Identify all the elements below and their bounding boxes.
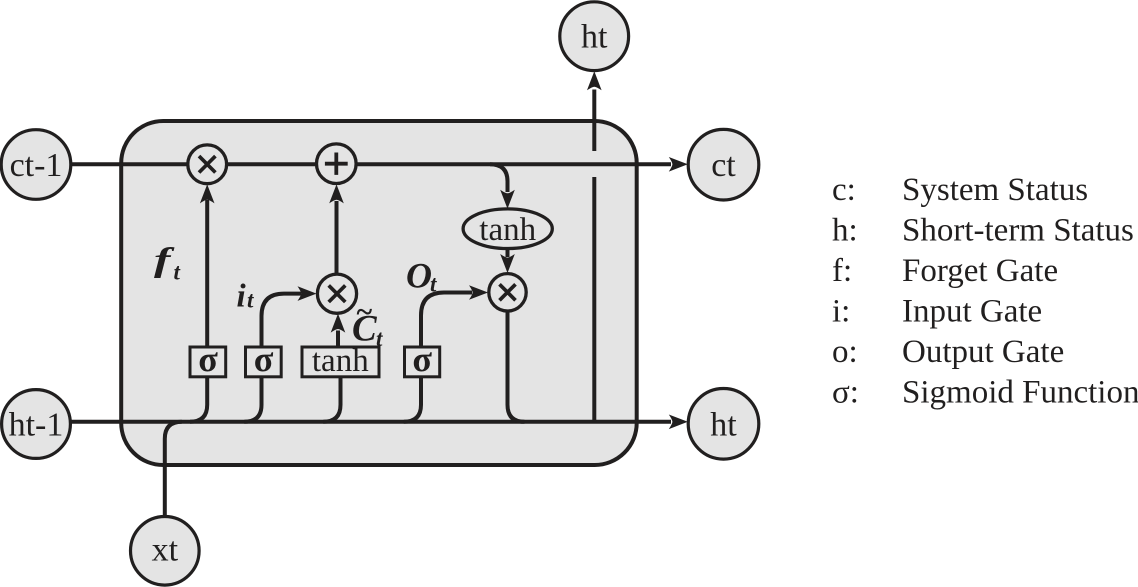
svg-text:σ: σ <box>198 339 218 379</box>
multiply gate 2 (input) <box>317 274 356 313</box>
svg-text:ht: ht <box>710 406 737 443</box>
plus gate <box>317 144 357 184</box>
svg-text:i:: i: <box>832 294 850 330</box>
svg-text:t: t <box>430 272 437 297</box>
node ht top <box>560 2 629 71</box>
label f_t <box>154 241 181 284</box>
wire ht output line ht-1 to ht <box>70 420 671 424</box>
svg-text:t: t <box>247 288 254 313</box>
sigma box 2 (input gate) <box>246 339 282 379</box>
tanh box (candidate) <box>302 343 379 379</box>
wire multiply3 output down to ht line <box>508 310 525 422</box>
wire output-gate branch (sigma3 up, curve right into multiply3) <box>404 285 488 422</box>
svg-text:ht: ht <box>581 19 608 56</box>
svg-text:σ: σ <box>254 339 274 379</box>
tanh ellipse <box>463 209 552 249</box>
svg-text:Forget Gate: Forget Gate <box>902 253 1058 289</box>
wire multiply2 up into plus <box>329 184 344 275</box>
label O_t <box>406 256 437 297</box>
node ct-1 <box>1 130 71 200</box>
svg-text:Short-term Status: Short-term Status <box>902 213 1134 249</box>
svg-text:i: i <box>237 279 247 315</box>
wire forget-gate branch (sigma1 up to multiply) <box>190 184 215 421</box>
node xt <box>131 517 200 586</box>
node ht right <box>688 389 759 460</box>
multiply gate 3 (output) <box>489 274 526 311</box>
label i_t <box>237 279 255 315</box>
svg-text:f:: f: <box>832 253 852 289</box>
svg-text:t: t <box>376 326 383 351</box>
svg-text:Input Gate: Input Gate <box>902 294 1042 330</box>
wire cell-state line ct-1 to ct <box>70 162 671 166</box>
svg-text:σ: σ <box>412 339 432 379</box>
wire candidate branch (tanh box up to multiply2) <box>323 314 345 422</box>
node ht-1 <box>2 390 71 459</box>
svg-text:Output Gate: Output Gate <box>902 334 1064 370</box>
svg-text:σ:: σ: <box>832 375 859 411</box>
svg-text:c:: c: <box>832 172 856 208</box>
svg-text:tanh: tanh <box>479 212 536 248</box>
svg-text:O: O <box>406 256 432 296</box>
svg-text:h:: h: <box>832 213 858 249</box>
sigma box 3 (output gate) <box>405 339 440 379</box>
wire input-gate branch (sigma2 up, curve right into multiply2) <box>244 286 316 421</box>
wire ht branch up to top ht (lower segment) <box>592 177 596 422</box>
arrowhead into ct <box>669 157 688 172</box>
svg-text:System Status: System Status <box>902 172 1088 208</box>
svg-text:Sigmoid Function: Sigmoid Function <box>902 375 1138 411</box>
svg-text:ht-1: ht-1 <box>9 407 64 444</box>
svg-text:t: t <box>174 260 181 285</box>
svg-text:ct: ct <box>711 147 736 184</box>
wire tanh ellipse into multiply3 <box>500 249 515 274</box>
LSTM cell body box <box>121 121 637 465</box>
wire ht branch up to top ht (upper segment with arrow) <box>587 71 602 151</box>
wire cell-state branch down into tanh ellipse <box>490 164 515 208</box>
multiply gate 1 (forget) <box>188 145 227 184</box>
svg-text:~: ~ <box>356 296 373 329</box>
wire xt input branch <box>165 422 182 517</box>
svg-text:ct-1: ct-1 <box>10 147 63 184</box>
sigma box 1 (forget gate) <box>190 339 226 379</box>
arrowhead into ht <box>669 415 688 430</box>
svg-text:o:: o: <box>832 334 858 370</box>
legend column <box>832 172 1138 411</box>
svg-text:xt: xt <box>152 532 179 569</box>
label C~_t (candidate) <box>352 296 383 352</box>
node ct <box>688 129 759 200</box>
